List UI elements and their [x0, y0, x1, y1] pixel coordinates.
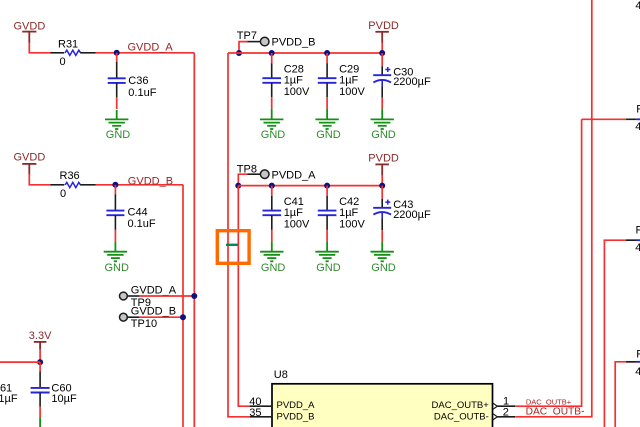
wire GVDD_A vertical	[193, 53, 195, 427]
junction dot TP8	[235, 183, 241, 189]
wire GVDD_B vertical	[182, 185, 184, 427]
svg-text:2200µF: 2200µF	[393, 76, 431, 88]
svg-text:GND: GND	[316, 262, 341, 274]
svg-text:PVDD: PVDD	[368, 153, 399, 165]
svg-text:GND: GND	[371, 129, 396, 141]
junction dot C42	[324, 183, 330, 189]
capacitor C43 (polarized)	[373, 186, 431, 242]
wire PVDD_A bus	[238, 185, 382, 187]
ground GND (C36)	[105, 110, 130, 141]
wire TP10 to GVDD_B	[139, 316, 183, 318]
power symbol GVDD (second)	[14, 151, 46, 174]
wire R36 to GVDD_B vertical	[96, 184, 184, 186]
svg-text:C41: C41	[284, 196, 304, 208]
pin 1 DAC_OUTB+	[432, 395, 516, 411]
svg-text:1µF: 1µF	[284, 207, 303, 219]
svg-text:100V: 100V	[284, 86, 310, 98]
pin 35 PVDD_B	[249, 407, 314, 422]
svg-text:DAC_OUTB-: DAC_OUTB-	[526, 407, 585, 418]
svg-text:DAC_OUTB-: DAC_OUTB-	[434, 411, 489, 422]
svg-text:TP8: TP8	[237, 163, 257, 175]
svg-text:1µF: 1µF	[339, 75, 358, 87]
svg-text:GVDD_B: GVDD_B	[128, 175, 173, 187]
svg-text:47: 47	[635, 121, 640, 133]
svg-text:1µF: 1µF	[339, 207, 358, 219]
power symbol PVDD (second)	[368, 153, 399, 176]
svg-text:PVDD: PVDD	[368, 20, 399, 32]
ground GND (C43)	[371, 241, 396, 274]
power symbol GVDD (top)	[14, 21, 46, 44]
svg-text:GND: GND	[371, 262, 396, 274]
capacitor C30 (polarized)	[373, 53, 431, 109]
svg-text:DAC_OUTB+: DAC_OUTB+	[526, 397, 572, 406]
svg-text:R: R	[636, 225, 640, 237]
svg-text:C36: C36	[128, 75, 148, 87]
svg-text:GVDD_B: GVDD_B	[131, 306, 176, 318]
wire TP9 to GVDD_A	[139, 295, 194, 297]
capacitor C36	[108, 53, 157, 109]
svg-text:100V: 100V	[339, 219, 365, 231]
svg-text:GND: GND	[105, 262, 130, 274]
test point TP8	[237, 163, 316, 185]
pin 40 PVDD_A	[249, 396, 315, 411]
svg-text:PVDD_A: PVDD_A	[277, 400, 316, 411]
svg-text:47: 47	[635, 242, 640, 254]
svg-text:10µF: 10µF	[51, 393, 77, 405]
ground GND (C28)	[260, 109, 285, 141]
wire pin1 to right vertical	[515, 119, 581, 406]
power symbol 3.3V	[29, 330, 52, 350]
svg-text:PVDD_B: PVDD_B	[272, 37, 316, 49]
svg-text:0: 0	[60, 56, 66, 68]
svg-text:GND: GND	[106, 129, 131, 141]
svg-text:C29: C29	[339, 63, 359, 75]
wire stub 1 (right edge)	[582, 103, 640, 133]
selection highlight (orange box)	[217, 231, 249, 264]
wire right vertical 4	[615, 362, 640, 427]
wire PVDD_A vertical to pin 40	[238, 186, 249, 407]
wire 3.3V to left edge	[0, 361, 40, 363]
capacitor C44	[106, 185, 156, 241]
junction dot TP7	[236, 50, 242, 56]
svg-text:GVDD_A: GVDD_A	[131, 284, 177, 296]
wire 3.3V down	[39, 349, 41, 362]
test point TP10	[120, 306, 177, 330]
junction dot at R36/C44	[112, 182, 118, 188]
capacitor C29	[318, 53, 366, 109]
wire PVDD_B vertical to pin 35	[228, 53, 250, 417]
test point TP9	[120, 284, 177, 309]
ground GND (C30)	[371, 109, 396, 141]
wire GVDD to R36	[29, 174, 51, 185]
svg-text:R31: R31	[58, 39, 78, 51]
svg-text:100V: 100V	[284, 219, 310, 231]
wire PVDD to bus	[381, 42, 383, 53]
capacitor C61 labels (cut at left edge)	[0, 382, 18, 405]
ground GND (C29)	[315, 109, 340, 141]
svg-text:2: 2	[503, 407, 509, 419]
svg-text:0: 0	[60, 188, 66, 200]
power symbol PVDD (top)	[368, 20, 399, 43]
svg-text:U8: U8	[274, 369, 288, 381]
capacitor C42	[318, 186, 366, 242]
wire pin2 to right vertical	[515, 0, 592, 417]
resistor R36	[51, 170, 96, 200]
svg-text:0.1uF: 0.1uF	[128, 87, 156, 99]
svg-text:DAC_OUTB+: DAC_OUTB+	[432, 400, 490, 411]
svg-text:GND: GND	[261, 262, 286, 274]
resistor R31	[51, 39, 96, 68]
wire R31 to GVDD_A vertical	[96, 52, 195, 54]
svg-text:GND: GND	[316, 129, 341, 141]
svg-text:TP7: TP7	[237, 30, 257, 42]
junction dot at R31/C36	[114, 50, 120, 56]
capacitor C41	[263, 186, 311, 242]
junction dot C28	[269, 50, 275, 56]
svg-text:0.1µF: 0.1µF	[0, 393, 18, 405]
junction dot C29	[324, 50, 330, 56]
wire PVDD to bus 2	[381, 175, 383, 186]
wire right vertical 3	[604, 240, 640, 427]
svg-text:R: R	[636, 349, 640, 361]
svg-text:PVDD_A: PVDD_A	[272, 170, 317, 182]
svg-text:TP10: TP10	[131, 318, 157, 330]
wire stub 2 (right edge)	[626, 225, 640, 255]
svg-text:1: 1	[503, 395, 509, 407]
junction dot C43	[379, 183, 385, 189]
svg-text:1µF: 1µF	[284, 75, 303, 87]
wire GVDD to R31	[29, 43, 51, 53]
junction dot TP9	[191, 293, 197, 299]
junction dot 3.3V	[37, 359, 43, 365]
svg-text:4: 4	[635, 0, 640, 12]
svg-text:C44: C44	[128, 207, 148, 219]
svg-text:47: 47	[635, 366, 640, 378]
svg-text:0.1uF: 0.1uF	[128, 218, 156, 230]
junction dot C41	[269, 183, 275, 189]
junction dot C30	[379, 50, 385, 56]
svg-text:R36: R36	[60, 170, 80, 182]
svg-text:C42: C42	[339, 196, 359, 208]
component U8	[272, 369, 493, 427]
svg-text:R: R	[636, 103, 640, 115]
ground GND (C42)	[315, 241, 340, 274]
capacitor C60	[31, 362, 77, 427]
svg-text:3.3V: 3.3V	[29, 330, 52, 342]
test point TP7	[237, 30, 316, 53]
wire PVDD_B bus	[228, 52, 382, 54]
svg-text:C28: C28	[284, 63, 304, 75]
svg-text:35: 35	[249, 407, 261, 419]
svg-text:2200µF: 2200µF	[393, 209, 431, 221]
capacitor C28	[262, 53, 310, 109]
ground GND (C41)	[260, 241, 285, 274]
junction dot TP10	[180, 314, 186, 320]
svg-text:100V: 100V	[339, 86, 365, 98]
pin 2 DAC_OUTB-	[434, 407, 515, 423]
svg-text:GVDD: GVDD	[14, 151, 46, 163]
svg-text:GND: GND	[261, 129, 286, 141]
svg-text:PVDD_B: PVDD_B	[277, 411, 315, 422]
svg-text:GVDD_A: GVDD_A	[128, 41, 174, 53]
ground GND (C44)	[104, 241, 129, 274]
wire stub 3 (right edge)	[626, 349, 640, 379]
